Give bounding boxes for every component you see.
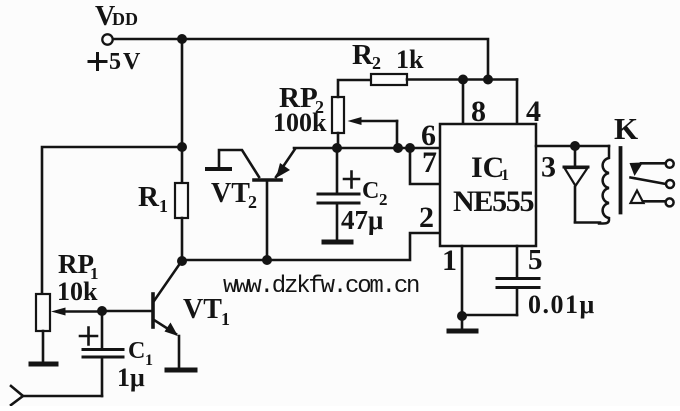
svg-text:1: 1 (442, 244, 457, 277)
svg-text:C: C (362, 178, 379, 204)
node main rail top (177, 34, 187, 44)
svg-text:1: 1 (145, 352, 153, 369)
svg-text:1k: 1k (396, 45, 424, 74)
relay coil K (599, 146, 609, 224)
wire control line to pin6 (294, 147, 440, 150)
resistor R2 (371, 74, 407, 85)
capacitor C2 (336, 148, 339, 193)
node RP1 branch tap (177, 142, 187, 152)
contact armature (631, 178, 667, 185)
wire RP2 wiper arrow (354, 120, 397, 123)
wire pin4 (516, 80, 519, 125)
node wiper drop (393, 143, 403, 153)
node pin4 (483, 75, 493, 85)
capacitor C1 (101, 311, 104, 348)
IC U1 NE555 timer box (440, 124, 536, 246)
label C1 plus (80, 328, 97, 345)
svg-text:1: 1 (501, 167, 509, 184)
svg-text:VT: VT (183, 294, 222, 325)
svg-text:1μ: 1μ (117, 363, 145, 392)
power terminal VDD (102, 34, 112, 44)
label C2 plus (344, 172, 359, 188)
ground C2 (324, 240, 351, 245)
ground RP1 (31, 362, 56, 367)
node VT2 base junction (262, 255, 272, 265)
svg-text:RP: RP (58, 249, 94, 279)
wire pin8 (462, 80, 465, 125)
wire RP2 bottom stub (337, 133, 340, 148)
svg-text:DD: DD (112, 9, 138, 29)
svg-text:R: R (138, 181, 160, 213)
contact fixed top (630, 163, 644, 177)
node pin8 (458, 75, 468, 85)
ground VT1 emitter (167, 368, 195, 373)
svg-text:0.01μ: 0.01μ (528, 290, 596, 319)
svg-text:4: 4 (526, 95, 541, 128)
wire RP2 top to R2 (338, 80, 371, 97)
node wiper junction (97, 306, 107, 316)
svg-text:1: 1 (159, 196, 168, 216)
wire pin7 (410, 148, 440, 184)
wire R1 bottom (181, 218, 184, 261)
relay core bar (619, 148, 623, 213)
node collector junction (177, 256, 187, 266)
wire RP1 wiper arrow (58, 310, 102, 313)
resistor R1 (175, 183, 188, 218)
wire diode return (575, 221, 600, 224)
svg-text:8: 8 (471, 95, 486, 128)
svg-text:IC: IC (471, 151, 504, 184)
capacitor 0.01u (497, 277, 539, 280)
svg-text:VT: VT (211, 178, 250, 209)
node pin7 drop (405, 143, 415, 153)
transistor VT1 (151, 294, 155, 327)
wire branch to RP1 (42, 147, 182, 294)
wire wiper to VT1 base (102, 310, 151, 313)
svg-text:K: K (614, 111, 638, 146)
wire VDD rail top (113, 39, 488, 80)
potentiometer RP1 (36, 294, 50, 331)
transistor VT2 (254, 178, 281, 182)
node pin1 gnd (457, 311, 467, 321)
svg-text:10k: 10k (57, 277, 98, 306)
svg-text:2: 2 (419, 201, 434, 234)
touch plate VT2 collector (207, 167, 230, 171)
node C2 top (332, 143, 342, 153)
ground pin1 (461, 316, 464, 329)
svg-text:3: 3 (541, 151, 556, 184)
contact fixed bottom (631, 191, 644, 204)
svg-text:5: 5 (528, 244, 543, 276)
input terminal chevron (11, 386, 23, 405)
svg-text:5V: 5V (109, 49, 142, 75)
svg-text:NE555: NE555 (453, 185, 533, 218)
svg-text:2: 2 (372, 53, 381, 73)
diode D1 relay flyback (574, 146, 577, 167)
wire pin5 (516, 246, 519, 277)
node pin3 relay (570, 141, 580, 151)
wire rail to pin2 (182, 233, 440, 260)
wire input to C1 (23, 395, 102, 398)
wire RP1 bottom stub (42, 331, 45, 362)
svg-text:www.dzkfw.com.cn: www.dzkfw.com.cn (223, 273, 419, 300)
svg-text:C: C (128, 338, 145, 364)
svg-text:1: 1 (221, 309, 230, 329)
wire pin3 (536, 145, 609, 148)
wire main vertical rail upper (181, 39, 184, 184)
potentiometer RP2 (332, 97, 344, 133)
label +5V (89, 54, 106, 70)
svg-text:100k: 100k (273, 108, 327, 137)
svg-text:7: 7 (422, 146, 437, 179)
wire R2 right to pin8/pin4 (407, 78, 517, 81)
svg-text:47μ: 47μ (341, 205, 383, 235)
wire pin1 (461, 246, 464, 316)
svg-text:R: R (352, 39, 374, 71)
svg-text:2: 2 (248, 192, 257, 212)
